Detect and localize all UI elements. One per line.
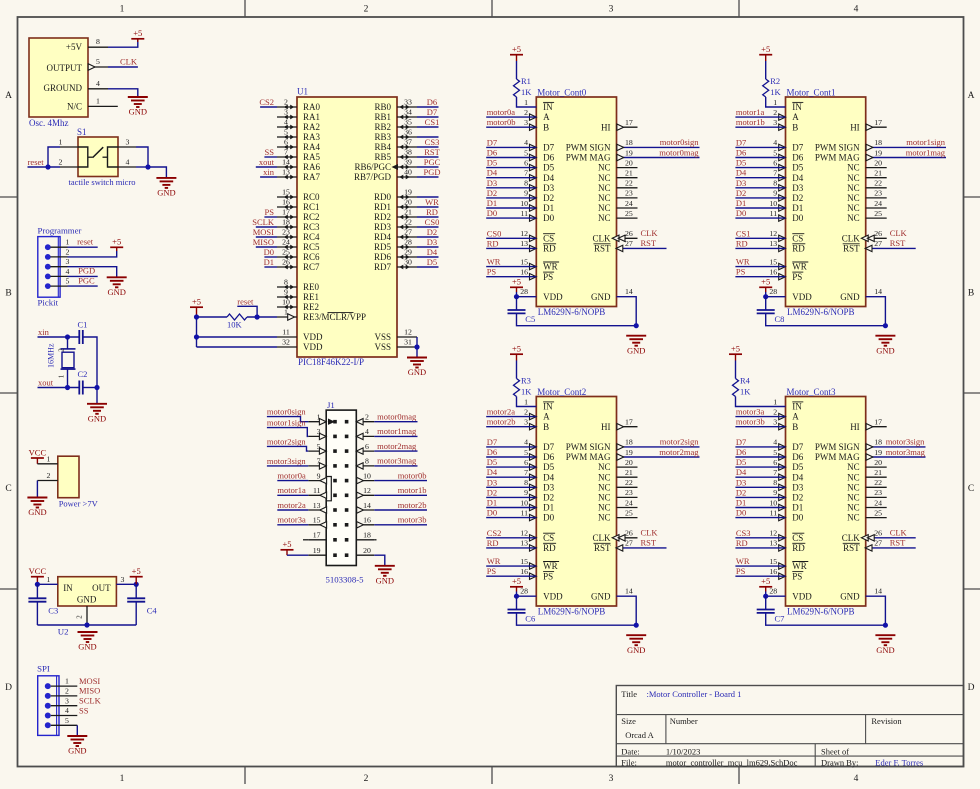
svg-text:4: 4 — [96, 79, 100, 88]
svg-text:+5: +5 — [761, 44, 770, 54]
U0 pin 26 (CLK) — [612, 229, 637, 241]
svg-text:MISO: MISO — [79, 686, 100, 696]
svg-text:PS: PS — [487, 267, 497, 277]
junction +5/C6 — [514, 594, 519, 599]
svg-text:1: 1 — [47, 575, 51, 584]
svg-text:2: 2 — [58, 348, 66, 352]
svg-text:16: 16 — [769, 268, 777, 277]
net label motor3mag (J1) — [377, 456, 417, 466]
net label D1 (U1) — [736, 198, 746, 208]
U2 pin 7 (D4) — [524, 468, 536, 480]
svg-text:VDD: VDD — [543, 292, 563, 302]
svg-text:2: 2 — [65, 687, 69, 696]
svg-text:14: 14 — [363, 501, 371, 510]
U0 pin 24 (NC) — [617, 199, 638, 208]
svg-text:12: 12 — [404, 328, 412, 337]
svg-text:RD: RD — [792, 244, 805, 254]
svg-text:12: 12 — [520, 229, 528, 238]
svg-text:21: 21 — [625, 169, 633, 178]
wire SS to U1.RA5 — [264, 156, 277, 158]
svg-text:RA6: RA6 — [303, 162, 321, 172]
net label CS2 (U2) — [487, 528, 502, 538]
wire motor0b from J1 — [374, 480, 427, 482]
U2 pin 27 (RST) — [616, 539, 667, 551]
svg-text:+5: +5 — [112, 237, 121, 247]
resistor R5 10K — [227, 314, 247, 329]
svg-text:A: A — [968, 91, 975, 101]
svg-text:SCLK: SCLK — [79, 696, 102, 706]
svg-text:LM629N-6/NOPB: LM629N-6/NOPB — [787, 607, 855, 617]
svg-text:16MHz: 16MHz — [47, 343, 56, 368]
svg-text:22: 22 — [874, 478, 882, 487]
svg-text:D2: D2 — [792, 193, 803, 203]
svg-text:VSS: VSS — [374, 342, 391, 352]
net label WR (U0) — [487, 257, 501, 267]
svg-text:PS: PS — [736, 267, 746, 277]
svg-text:PGC: PGC — [424, 157, 441, 167]
svg-text:5: 5 — [524, 148, 528, 157]
svg-text:SS: SS — [265, 147, 275, 157]
svg-text:PS: PS — [736, 566, 746, 576]
svg-text:VDD: VDD — [303, 332, 323, 342]
svg-text:RB6/PGC: RB6/PGC — [354, 162, 391, 172]
wire R2 to U1 pin1 — [766, 97, 786, 107]
net label motor0sign (U0) — [660, 137, 699, 147]
svg-text:motor3mag: motor3mag — [377, 456, 417, 466]
svg-text:8: 8 — [524, 478, 528, 487]
net label WR (U1) — [736, 257, 750, 267]
svg-text:7: 7 — [284, 148, 288, 157]
J1 pin 10 — [356, 471, 374, 483]
svg-text:D1: D1 — [736, 498, 746, 508]
svg-text:2: 2 — [59, 158, 63, 167]
svg-text:1: 1 — [773, 397, 777, 406]
svg-text:PS: PS — [265, 207, 275, 217]
svg-text:A: A — [792, 412, 799, 422]
svg-text:motor0sign: motor0sign — [660, 137, 699, 147]
svg-text:motor2mag: motor2mag — [659, 447, 699, 457]
svg-text:IN: IN — [543, 102, 553, 112]
U2 pin 19 — [625, 448, 633, 457]
svg-text:D7: D7 — [487, 437, 497, 447]
U0 pin 11 (D0) — [520, 209, 536, 221]
svg-text:16: 16 — [282, 198, 290, 207]
net label SCLK (U1 left) — [252, 217, 275, 227]
U1 pin 21 (RD2) — [374, 208, 417, 223]
wire D4 to U3 — [735, 476, 785, 478]
wire MOSI to U1.RC4 — [256, 236, 277, 238]
svg-text:NC: NC — [847, 163, 860, 173]
wire D2 to U0 — [486, 197, 536, 199]
svg-text:NC: NC — [847, 213, 860, 223]
U2 pin 1 (IN) — [524, 397, 528, 406]
S1 pin 4 — [118, 158, 136, 168]
wire J1 pin18 stub — [374, 539, 376, 541]
svg-text:WR: WR — [543, 561, 558, 571]
wire motor1b from J1 — [374, 494, 427, 496]
svg-text:2: 2 — [365, 413, 369, 422]
regulator U2 body — [58, 577, 117, 637]
svg-text:29: 29 — [404, 248, 412, 257]
svg-text:9: 9 — [284, 288, 288, 297]
svg-text:14: 14 — [282, 158, 290, 167]
U1 pin 12 (VSS) — [374, 328, 417, 343]
svg-text:9: 9 — [317, 471, 321, 480]
svg-text:tactile switch micro: tactile switch micro — [69, 177, 136, 187]
net label CLK (U2) — [641, 528, 659, 538]
svg-text:24: 24 — [282, 238, 290, 247]
svg-text:RD: RD — [487, 538, 499, 548]
svg-text:NC: NC — [598, 493, 611, 503]
svg-text:CLK: CLK — [641, 228, 659, 238]
svg-text:WR: WR — [487, 556, 501, 566]
U0 pin 27 (RST) — [616, 239, 667, 251]
svg-text:D: D — [5, 683, 12, 693]
net label RD (U3) — [736, 538, 748, 548]
wire U1.RB3 right — [417, 136, 439, 138]
U1 pin 31 (VSS) — [374, 338, 417, 353]
U3 pin 16 — [769, 567, 785, 579]
net label motor1mag (J1) — [377, 426, 417, 436]
U1 pin 7 (D4) — [773, 169, 785, 181]
net label RD (U2) — [487, 538, 499, 548]
U1 pin 21 (NC) — [866, 169, 887, 178]
svg-text:27: 27 — [625, 539, 633, 548]
U1 pin 35 (RB2) — [374, 118, 417, 133]
svg-text:motor1mag: motor1mag — [377, 426, 417, 436]
svg-text:3: 3 — [66, 257, 70, 266]
wire U1.RB1 right — [417, 116, 439, 118]
svg-text:+5: +5 — [282, 539, 291, 549]
net label CLK (U3) — [890, 528, 908, 538]
U0 pin 8 (D3) — [524, 179, 536, 191]
svg-text:23: 23 — [625, 189, 633, 198]
svg-text:Power >7V: Power >7V — [59, 498, 99, 508]
svg-text:11: 11 — [520, 209, 528, 218]
net label motor3b — [736, 417, 765, 427]
U1 pin 36 (RB3) — [374, 128, 417, 143]
svg-text:22: 22 — [625, 478, 633, 487]
oscillator OSC1 body — [29, 38, 88, 128]
svg-text:D6: D6 — [487, 447, 497, 457]
net label motor0a — [487, 107, 516, 117]
net label reset (S1) — [28, 157, 45, 167]
svg-text:D3: D3 — [792, 183, 803, 193]
svg-text:D6: D6 — [792, 153, 803, 163]
U3 pin 20 (NC) — [866, 458, 887, 467]
svg-text:D6: D6 — [736, 148, 746, 158]
svg-text:D2: D2 — [736, 487, 746, 497]
S1 pin 3 — [118, 138, 136, 148]
svg-text:RB3: RB3 — [374, 132, 391, 142]
svg-text:5: 5 — [773, 448, 777, 457]
U1 pin 22 (NC) — [866, 179, 887, 188]
svg-text:PIC18F46K22-I/P: PIC18F46K22-I/P — [298, 357, 364, 367]
svg-text:16: 16 — [520, 268, 528, 277]
svg-text:D3: D3 — [487, 477, 497, 487]
svg-text:VDD: VDD — [543, 591, 563, 601]
svg-text:N/C: N/C — [67, 102, 82, 112]
svg-text:RD6: RD6 — [374, 252, 392, 262]
svg-text:+5: +5 — [761, 576, 770, 586]
svg-text:12: 12 — [769, 229, 777, 238]
J1 pin 13 — [308, 501, 326, 513]
net label CLK (U0) — [641, 228, 659, 238]
svg-text:A: A — [792, 112, 799, 122]
svg-text:28: 28 — [769, 587, 777, 596]
U1 pin 5 (RA3) — [277, 128, 321, 143]
svg-text:1: 1 — [773, 98, 777, 107]
junction VCC/C3 — [35, 582, 40, 587]
U1 pin 37 (RB4) — [374, 138, 417, 153]
net label D7 (U1) — [736, 137, 746, 147]
svg-text:1: 1 — [120, 774, 125, 784]
svg-text:RA1: RA1 — [303, 112, 320, 122]
U0 pin 13 — [520, 239, 536, 251]
svg-text:4: 4 — [524, 138, 528, 147]
svg-text:1: 1 — [524, 98, 528, 107]
svg-text:19: 19 — [625, 148, 633, 157]
wire U2 gnd rail — [37, 624, 136, 626]
U3 pin 3 — [773, 418, 785, 430]
svg-text:D1: D1 — [264, 257, 274, 267]
svg-text:RD1: RD1 — [374, 202, 391, 212]
svg-text:RC2: RC2 — [303, 212, 320, 222]
wire U1.RB6/PGC right — [417, 166, 439, 168]
wire CS0 to U0 — [486, 237, 536, 239]
svg-text:reset: reset — [237, 297, 254, 307]
svg-text:CS2: CS2 — [259, 97, 274, 107]
svg-text:NC: NC — [598, 503, 611, 513]
svg-text:2: 2 — [364, 5, 369, 15]
svg-text:28: 28 — [520, 587, 528, 596]
junction GND rail (U0) — [634, 323, 639, 328]
svg-text:8: 8 — [524, 179, 528, 188]
svg-text:VCC: VCC — [29, 447, 47, 457]
svg-text:C2: C2 — [78, 369, 88, 379]
svg-text:B: B — [792, 122, 798, 132]
svg-text:GND: GND — [376, 575, 394, 585]
connector SPI body — [37, 664, 77, 736]
U2 pin 14 (GND) — [625, 587, 633, 596]
capacitor C5 — [508, 297, 536, 324]
svg-text:CS3: CS3 — [425, 137, 440, 147]
wire U1.RD4 right — [417, 236, 439, 238]
svg-text:1: 1 — [66, 238, 70, 247]
wire RD to U0 — [486, 247, 536, 249]
svg-text:HI: HI — [601, 422, 611, 432]
U1 pin 1 (IN) — [773, 98, 777, 107]
svg-text:17: 17 — [282, 208, 290, 217]
svg-text:CS1: CS1 — [425, 117, 440, 127]
svg-text:motor1mag: motor1mag — [906, 147, 946, 157]
svg-text:4: 4 — [365, 427, 369, 436]
J1 pin 6 — [356, 442, 374, 454]
svg-text:motor3mag: motor3mag — [886, 447, 926, 457]
wire D1 to U3 — [735, 507, 785, 509]
U2 pin 3 — [524, 418, 536, 430]
svg-text:D7: D7 — [487, 137, 497, 147]
svg-text:24: 24 — [874, 199, 882, 208]
svg-text:+5: +5 — [132, 566, 141, 576]
U2 pin 2 — [524, 407, 536, 419]
U3 pin 5 (D6) — [773, 448, 785, 460]
wire WR to U3 — [735, 565, 785, 567]
U3 pin 19 — [874, 448, 882, 457]
U1 pin 23 (NC) — [866, 189, 887, 198]
ground GND (U1) — [875, 336, 895, 356]
junction +5/C8 — [763, 294, 768, 299]
junction GND rail (U3) — [883, 623, 888, 628]
wire osc pin8 to +5 — [108, 39, 138, 47]
svg-text:D0: D0 — [543, 213, 554, 223]
svg-text:D3: D3 — [736, 178, 746, 188]
svg-text:18: 18 — [874, 138, 882, 147]
U1 pin 16 — [769, 268, 785, 280]
wire +5 to 10K and VDD pins — [197, 317, 278, 347]
svg-text:motor2sign: motor2sign — [267, 436, 306, 446]
svg-text:D2: D2 — [543, 493, 554, 503]
U1 pin 28 (RD5) — [374, 238, 417, 253]
svg-text:VSS: VSS — [374, 332, 391, 342]
wire xout to U1.RA6 — [256, 166, 277, 168]
svg-text:2: 2 — [773, 407, 777, 416]
power +5 (osc) — [131, 28, 144, 42]
power +5 (U0 VDD) — [510, 277, 523, 292]
U1 pin 28 (VDD) — [766, 287, 786, 297]
net label PS (U3) — [736, 566, 746, 576]
wire D4 to U1 — [735, 177, 785, 179]
svg-text:30: 30 — [404, 258, 412, 267]
U2 pin 3 — [116, 575, 136, 585]
net label PGC (U1 right) — [424, 157, 441, 167]
wire D7 to U0 — [486, 146, 536, 148]
wire D4 to U0 — [486, 177, 536, 179]
power +5 (R1) — [510, 44, 523, 61]
svg-text:S1: S1 — [77, 127, 87, 137]
svg-text:D1: D1 — [543, 203, 554, 213]
J1 pin 4 — [356, 427, 374, 439]
svg-text:Revision: Revision — [871, 716, 902, 726]
svg-text:GND: GND — [157, 188, 175, 198]
wire D1 to U1 — [735, 207, 785, 209]
svg-text:+5: +5 — [512, 44, 521, 54]
resistor R3 1K — [514, 361, 533, 397]
svg-text:10K: 10K — [227, 319, 243, 329]
svg-text:8: 8 — [773, 478, 777, 487]
motor controller U3 Motor_Cont3 body — [786, 387, 866, 617]
junction U1 VSS — [414, 344, 419, 349]
svg-text:23: 23 — [874, 189, 882, 198]
svg-text:NC: NC — [598, 193, 611, 203]
svg-text:CLK: CLK — [593, 533, 612, 543]
ground GND (SPI) — [67, 736, 87, 756]
svg-text:18: 18 — [625, 138, 633, 147]
net label D1 (U2) — [487, 498, 497, 508]
svg-text:24: 24 — [625, 199, 633, 208]
svg-text:8: 8 — [773, 179, 777, 188]
wire PS to U1 — [735, 276, 785, 278]
svg-text:D0: D0 — [487, 208, 497, 218]
net label RST (U1 right) — [424, 147, 440, 157]
svg-text:25: 25 — [874, 508, 882, 517]
ground GND (Programmer) — [107, 277, 127, 297]
svg-text:+5V: +5V — [66, 42, 83, 52]
svg-text:10: 10 — [282, 298, 290, 307]
svg-text:10: 10 — [363, 471, 371, 480]
power +5 (J1 pin19) — [281, 539, 294, 555]
svg-text:R4: R4 — [740, 376, 751, 386]
svg-text:motor0sign: motor0sign — [267, 407, 306, 417]
svg-text:RST: RST — [594, 244, 611, 254]
svg-text:27: 27 — [404, 228, 412, 237]
wire motor3b to U3 — [735, 426, 785, 428]
net label RD (U0) — [487, 238, 499, 248]
svg-text:D6: D6 — [736, 447, 746, 457]
svg-text:C8: C8 — [775, 314, 785, 324]
svg-text:10: 10 — [520, 199, 528, 208]
svg-text:35: 35 — [404, 118, 412, 127]
svg-text:13: 13 — [282, 168, 290, 177]
svg-text:4: 4 — [854, 5, 859, 15]
net label D3 (U3) — [736, 477, 746, 487]
U1 pin 16 (RC1) — [277, 198, 320, 213]
U1 pin 18 — [874, 138, 882, 147]
svg-text:23: 23 — [282, 228, 290, 237]
U1 pin 15 — [769, 257, 785, 269]
svg-text:24: 24 — [625, 498, 633, 507]
wire D7 to U3 — [735, 446, 785, 448]
wire CS2 to U1.RA0 — [260, 106, 277, 108]
U3 pin 22 (NC) — [866, 478, 887, 487]
svg-text:2: 2 — [364, 774, 369, 784]
net label D4 (U2) — [487, 467, 498, 477]
net label D0 (U0) — [487, 208, 497, 218]
crystal Y1 16MHz — [47, 337, 76, 388]
net label D5 (U1 right) — [427, 257, 437, 267]
net label motor3mag (U3) — [886, 447, 926, 457]
power symbol VCC (Power conn) — [29, 447, 47, 463]
svg-text:PWM SIGN: PWM SIGN — [815, 143, 860, 153]
svg-text:2: 2 — [773, 108, 777, 117]
svg-text:9: 9 — [524, 488, 528, 497]
wire motor1sign to J1 pin3 — [267, 428, 308, 437]
wire motor0mag from U0 — [617, 154, 700, 160]
svg-text:RD5: RD5 — [374, 242, 392, 252]
net label D4 (U3) — [736, 467, 747, 477]
power +5 (R3) — [510, 344, 523, 361]
svg-text:GROUND: GROUND — [43, 83, 82, 93]
svg-text:D: D — [968, 683, 975, 693]
J1 pin 9 — [308, 471, 326, 483]
svg-text:D1: D1 — [792, 503, 803, 513]
wire D3 to U3 — [735, 486, 785, 488]
svg-text:Drawn By:: Drawn By: — [821, 758, 859, 768]
svg-text:RC0: RC0 — [303, 192, 320, 202]
junction reset/RE3 — [255, 314, 260, 319]
svg-text:1: 1 — [284, 308, 288, 317]
net label motor0mag (U0) — [659, 147, 699, 157]
U1 pin 8 (RE0) — [277, 278, 320, 293]
svg-text:20: 20 — [404, 198, 412, 207]
U1 pin 10 (RE2) — [277, 298, 319, 313]
svg-text:RB5: RB5 — [374, 152, 391, 162]
svg-text:32: 32 — [282, 338, 290, 347]
wire motor1a to J1 — [277, 494, 308, 496]
wire RD to U1 — [735, 247, 785, 249]
wire C2 to GND — [83, 388, 97, 404]
svg-text:RST: RST — [424, 147, 440, 157]
